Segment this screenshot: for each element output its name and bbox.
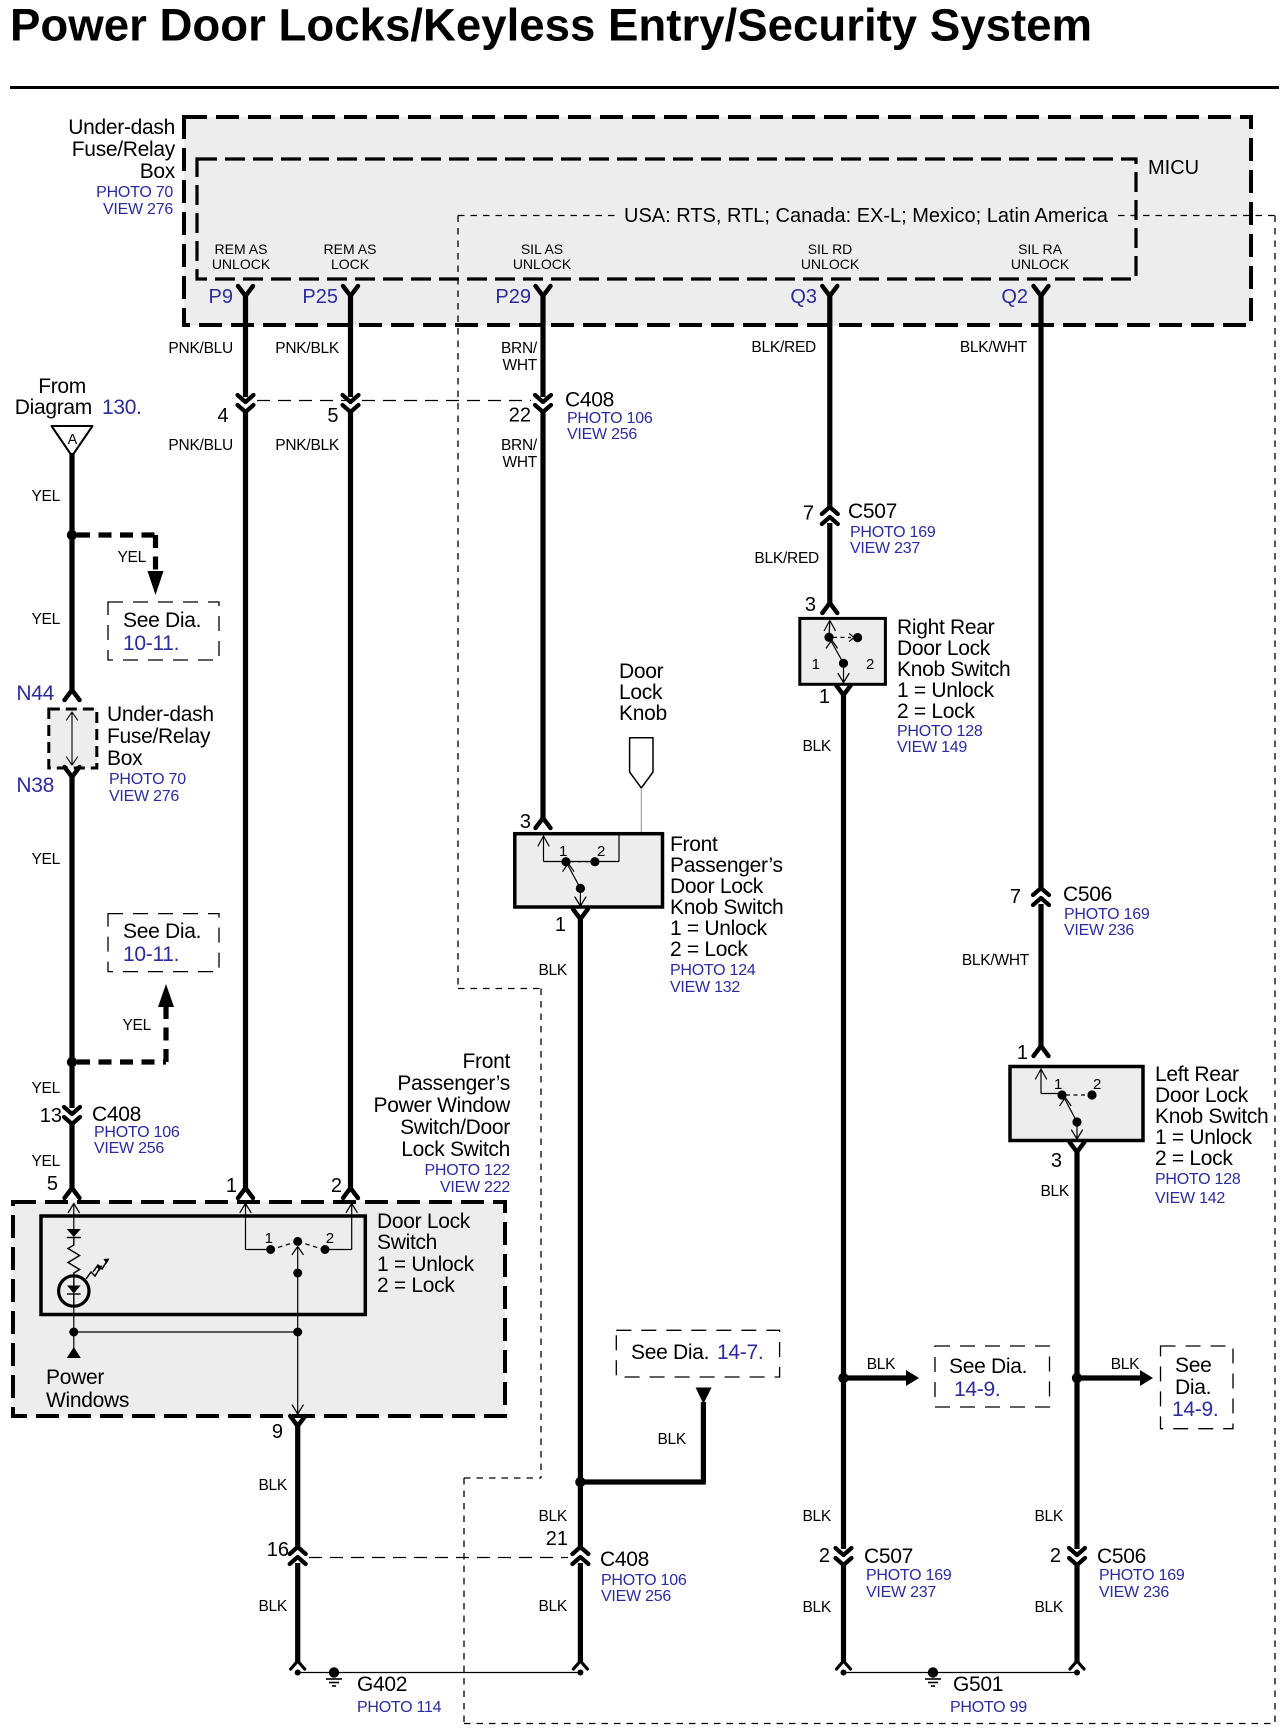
svg-text:2 = Lock: 2 = Lock	[1155, 1147, 1233, 1170]
svg-text:4: 4	[217, 405, 228, 427]
left rear switch rotor dot	[1072, 1117, 1081, 1126]
svg-text:Box: Box	[140, 160, 176, 183]
wire BLK front passenger pin 1	[578, 919, 583, 1482]
svg-text:UNLOCK: UNLOCK	[212, 256, 271, 272]
under-dash fuse/relay box (MICU) outer dashed box	[184, 117, 1251, 325]
wire BLK right rear pin 1	[841, 695, 846, 1549]
svg-text:1: 1	[555, 914, 566, 936]
dashed YEL branch to See Dia 10-11 (lower)	[77, 1059, 166, 1064]
wire YEL to C408 pin 13	[69, 1062, 74, 1108]
svg-text:2: 2	[1093, 1076, 1101, 1093]
wire Q3 BLK/RED upper segment	[827, 296, 832, 509]
pin P29 connector fork	[536, 286, 551, 296]
connector N44 fork	[65, 690, 80, 700]
svg-text:2 = Lock: 2 = Lock	[670, 938, 748, 961]
svg-text:22: 22	[509, 405, 531, 427]
right rear switch contact dot 1	[824, 633, 833, 642]
svg-text:2: 2	[326, 1230, 334, 1247]
ground symbol G402	[329, 1667, 339, 1677]
connector C408 pin 22 (wire-to-wire)	[535, 395, 551, 402]
right rear switch pin 1 fork	[836, 685, 851, 695]
svg-text:5: 5	[47, 1173, 58, 1195]
svg-text:PNK/BLK: PNK/BLK	[275, 340, 340, 357]
svg-text:VIEW 276: VIEW 276	[103, 201, 173, 218]
svg-text:BLK: BLK	[1111, 1356, 1140, 1373]
dashed YEL branch to See Dia 10-11 (upper)	[77, 532, 156, 537]
svg-text:1 = Unlock: 1 = Unlock	[377, 1253, 475, 1276]
svg-text:14-9.: 14-9.	[954, 1378, 1000, 1401]
svg-text:16: 16	[267, 1539, 289, 1561]
ground bus dot right (G501)	[1074, 1670, 1080, 1676]
svg-text:N44: N44	[16, 682, 54, 705]
svg-text:P9: P9	[209, 286, 233, 308]
junction dot right rear BLK	[838, 1373, 848, 1383]
svg-text:YEL: YEL	[31, 488, 60, 505]
svg-text:Knob Switch: Knob Switch	[897, 658, 1010, 681]
arrowhead to See Dia 14-9 (left)	[906, 1370, 919, 1386]
svg-text:P29: P29	[495, 286, 531, 308]
svg-text:BLK: BLK	[802, 1508, 831, 1525]
arrowhead up to See Dia 10-11 (lower)	[158, 984, 174, 1007]
diode symbol	[67, 1229, 81, 1237]
wire YEL to door lock switch pin 5	[69, 1122, 74, 1188]
svg-text:PNK/BLU: PNK/BLU	[168, 437, 233, 454]
svg-text:Q3: Q3	[790, 286, 817, 308]
power window switch pin 9 fork	[290, 1416, 305, 1426]
svg-text:YEL: YEL	[31, 1153, 60, 1170]
svg-text:VIEW 132: VIEW 132	[670, 979, 740, 996]
wire BLK/WHT lower segment	[1038, 904, 1043, 1046]
wire BLK from See Dia 14-7	[701, 1402, 706, 1482]
resistor zigzag	[68, 1238, 80, 1277]
ground bus chevron right (G501)	[1070, 1661, 1084, 1669]
svg-text:VIEW 222: VIEW 222	[440, 1179, 510, 1196]
right rear switch exit line	[843, 663, 845, 682]
ground bus dot right (G402)	[577, 1670, 583, 1676]
svg-text:PHOTO 128: PHOTO 128	[1155, 1171, 1241, 1188]
svg-text:Door Lock: Door Lock	[1155, 1084, 1249, 1107]
ground bus G402	[298, 1672, 581, 1674]
front passenger switch contact bracket	[544, 861, 620, 863]
svg-text:Under-dash: Under-dash	[107, 703, 214, 726]
variant boundary dashed line (left vertical x=458)	[457, 216, 459, 989]
svg-text:BLK: BLK	[1034, 1508, 1063, 1525]
svg-text:PHOTO 106: PHOTO 106	[94, 1124, 180, 1141]
junction dot left rear BLK	[1072, 1373, 1082, 1383]
svg-text:BLK: BLK	[1040, 1183, 1069, 1200]
connector C408 pin 5 (wire-to-wire)	[343, 395, 359, 402]
svg-text:130.: 130.	[102, 396, 142, 419]
wire BRN/WHT lower segment	[540, 410, 545, 818]
svg-text:1: 1	[819, 686, 830, 708]
switch contact dot 1	[266, 1245, 275, 1254]
variant boundary dashed line (vertical x=464)	[463, 1478, 465, 1724]
svg-text:2: 2	[1050, 1545, 1061, 1567]
svg-text:VIEW 256: VIEW 256	[601, 1588, 671, 1605]
svg-text:BRN/: BRN/	[501, 340, 538, 357]
svg-text:PNK/BLK: PNK/BLK	[275, 437, 340, 454]
connector C408 pin 13 (wire-to-wire)	[64, 1107, 80, 1114]
ground bus chevron left (G402)	[291, 1661, 305, 1669]
svg-text:BLK: BLK	[538, 1598, 567, 1615]
connector C507 pin 2 (wire-to-wire)	[836, 1548, 852, 1555]
svg-text:USA: RTS, RTL; Canada: EX-L; M: USA: RTS, RTL; Canada: EX-L; Mexico; Lat…	[624, 205, 1109, 227]
svg-text:10-11.: 10-11.	[123, 943, 179, 966]
wire BLK pin9 lower	[295, 1563, 300, 1662]
svg-text:Front: Front	[462, 1050, 510, 1073]
connector C408 tie line (pins 16-21)	[309, 1557, 568, 1559]
wire BLK/RED lower segment	[827, 523, 832, 603]
svg-text:Front: Front	[670, 833, 718, 856]
svg-text:N38: N38	[16, 774, 54, 797]
variant boundary dashed line (vertical x=541)	[540, 989, 542, 1479]
ground symbol G501	[928, 1667, 938, 1677]
svg-text:BLK: BLK	[258, 1477, 287, 1494]
svg-text:Fuse/Relay: Fuse/Relay	[72, 138, 176, 161]
svg-text:VIEW 142: VIEW 142	[1155, 1190, 1225, 1207]
wire BLK to C408 pin 21	[578, 1482, 583, 1549]
variant boundary dashed line (top left segment)	[458, 215, 616, 217]
svg-text:Passenger’s: Passenger’s	[670, 854, 783, 877]
front passenger switch rotor arm	[568, 865, 581, 889]
svg-text:1 = Unlock: 1 = Unlock	[670, 917, 768, 940]
svg-text:Switch: Switch	[377, 1231, 437, 1254]
svg-text:Lock: Lock	[619, 681, 663, 704]
pin Q2 connector fork	[1034, 286, 1049, 296]
svg-text:REM AS: REM AS	[324, 241, 377, 257]
wire BLK below C507 pin 2	[841, 1563, 846, 1662]
svg-text:P25: P25	[302, 286, 338, 308]
svg-text:BLK/RED: BLK/RED	[751, 339, 816, 356]
right rear switch rotor arm	[831, 641, 844, 663]
svg-text:5: 5	[327, 405, 338, 427]
switch common exit arrow	[292, 1405, 303, 1414]
svg-text:Diagram: Diagram	[15, 396, 92, 419]
variant boundary dashed jog (y=1478)	[464, 1477, 541, 1479]
svg-text:WHT: WHT	[502, 357, 537, 374]
svg-text:Door Lock: Door Lock	[897, 637, 991, 660]
MICU inner dashed box	[197, 159, 1136, 279]
svg-text:From: From	[38, 375, 86, 398]
ground bus chevron left (G501)	[837, 1661, 851, 1669]
switch pivot dashed arm to contact 1	[273, 1241, 298, 1249]
svg-text:VIEW 237: VIEW 237	[850, 540, 920, 557]
svg-text:VIEW 236: VIEW 236	[1099, 1584, 1169, 1601]
svg-text:UNLOCK: UNLOCK	[513, 256, 572, 272]
front passenger switch pin 1 fork	[573, 909, 588, 919]
svg-text:PHOTO 128: PHOTO 128	[897, 723, 983, 740]
svg-text:PHOTO 124: PHOTO 124	[670, 962, 756, 979]
svg-text:Fuse/Relay: Fuse/Relay	[107, 725, 211, 748]
svg-text:BLK/RED: BLK/RED	[754, 550, 819, 567]
svg-text:UNLOCK: UNLOCK	[1011, 256, 1070, 272]
connector C408 pin 21 (wire-to-wire)	[572, 1547, 588, 1554]
svg-text:PHOTO 169: PHOTO 169	[1064, 906, 1150, 923]
under-dash fuse/relay box connector (N44-N38) dashed box	[49, 709, 97, 768]
svg-text:3: 3	[520, 811, 531, 833]
svg-text:BLK: BLK	[867, 1356, 896, 1373]
door lock switch pin 5 fork	[65, 1188, 80, 1198]
wire PNK/BLK lower segment to door lock switch	[348, 410, 353, 1188]
wire Q2 BLK/WHT upper segment	[1038, 296, 1043, 890]
junction dot YEL branch 1	[67, 530, 77, 540]
See Dia. 10-11. box (upper)	[108, 602, 219, 660]
left rear knob switch pin 1 fork	[1034, 1046, 1049, 1056]
See Dia. 10-11. box (lower)	[108, 914, 219, 972]
svg-text:SIL RA: SIL RA	[1018, 241, 1062, 257]
svg-text:Lock Switch: Lock Switch	[401, 1138, 510, 1161]
svg-text:VIEW 256: VIEW 256	[567, 426, 637, 443]
left rear switch pin 3 fork	[1070, 1142, 1085, 1152]
svg-text:1: 1	[559, 843, 567, 860]
svg-text:Right Rear: Right Rear	[897, 616, 995, 639]
ground bus dot left (G402)	[295, 1670, 301, 1676]
svg-text:BLK: BLK	[538, 1508, 567, 1525]
illumination lamp entry arrow	[68, 1204, 79, 1213]
ground bus chevron right (G402)	[573, 1661, 587, 1669]
svg-text:BRN/: BRN/	[501, 437, 538, 454]
svg-text:VIEW 276: VIEW 276	[109, 788, 179, 805]
svg-text:Passenger’s: Passenger’s	[397, 1072, 510, 1095]
pin Q3 connector fork	[822, 286, 837, 296]
svg-text:21: 21	[546, 1528, 568, 1550]
svg-text:3: 3	[805, 594, 816, 616]
front passenger switch contact dot 2	[590, 857, 599, 866]
svg-text:See Dia.: See Dia.	[123, 609, 201, 632]
arrowhead down to See Dia 10-11	[148, 571, 164, 595]
svg-text:SIL AS: SIL AS	[521, 241, 563, 257]
wire YEL from triangle	[69, 453, 74, 535]
arrowhead to See Dia 14-9 (right)	[1140, 1370, 1153, 1386]
connector C408 tie line (pins 4-5-22)	[257, 400, 531, 402]
svg-text:VIEW 237: VIEW 237	[866, 1584, 936, 1601]
variant boundary dashed jog (y=988)	[458, 988, 541, 990]
svg-text:Under-dash: Under-dash	[68, 116, 175, 139]
connector C408 pin 4 (wire-to-wire)	[238, 395, 254, 402]
svg-text:14-9.: 14-9.	[1172, 1398, 1218, 1421]
svg-text:Knob Switch: Knob Switch	[670, 896, 783, 919]
svg-text:2 = Lock: 2 = Lock	[377, 1274, 455, 1297]
right rear switch internal arrow to pin 3	[824, 621, 835, 631]
front passenger switch rotor dot	[576, 884, 585, 893]
svg-text:VIEW 149: VIEW 149	[897, 739, 967, 756]
svg-text:PHOTO 169: PHOTO 169	[850, 524, 936, 541]
LED symbol inside lamp	[67, 1286, 81, 1294]
front passenger switch internal arrow to pin 3	[538, 836, 549, 846]
wire BLK below pin 21	[578, 1563, 583, 1662]
svg-text:C408: C408	[92, 1103, 141, 1126]
svg-text:7: 7	[1010, 886, 1021, 908]
variant boundary dashed line (bottom y=1723)	[464, 1723, 1275, 1725]
title underline rule	[10, 86, 1279, 89]
door lock switch solid box	[41, 1216, 365, 1315]
svg-text:VIEW 236: VIEW 236	[1064, 922, 1134, 939]
left rear switch contact dot 2	[1087, 1090, 1096, 1099]
svg-text:VIEW 256: VIEW 256	[94, 1140, 164, 1157]
wire BLK left rear pin 3	[1074, 1152, 1079, 1549]
svg-text:YEL: YEL	[117, 549, 146, 566]
svg-text:1: 1	[812, 656, 820, 673]
left rear switch exit line	[1076, 1122, 1078, 1139]
front passenger switch exit line	[579, 888, 581, 906]
switch common mid dot	[293, 1269, 302, 1278]
right rear switch contact dot 2	[853, 633, 862, 642]
front passenger knob switch pin 3 fork	[536, 818, 551, 828]
variant boundary dashed line (top right segment)	[1118, 215, 1275, 217]
svg-text:BLK: BLK	[802, 1599, 831, 1616]
variant boundary dashed line (right vertical x=1275)	[1274, 216, 1276, 1724]
svg-text:SIL RD: SIL RD	[808, 241, 853, 257]
power window switch module dashed box	[13, 1202, 505, 1416]
svg-text:Knob Switch: Knob Switch	[1155, 1105, 1268, 1128]
svg-text:Door Lock: Door Lock	[670, 875, 764, 898]
front passenger switch dashed link	[570, 861, 591, 863]
svg-text:BLK: BLK	[802, 738, 831, 755]
svg-text:Power: Power	[46, 1366, 104, 1389]
svg-text:Switch/Door: Switch/Door	[400, 1116, 510, 1139]
switch common junction dot	[293, 1328, 302, 1337]
switch common arrow	[292, 1247, 303, 1255]
svg-text:1: 1	[265, 1230, 273, 1247]
right rear knob switch pin 3 fork	[822, 603, 837, 613]
svg-text:BLK: BLK	[657, 1431, 686, 1448]
door lock switch pin 1 fork	[238, 1188, 253, 1198]
svg-text:WHT: WHT	[502, 454, 537, 471]
svg-text:Door: Door	[619, 660, 664, 683]
svg-text:PHOTO 169: PHOTO 169	[866, 1567, 952, 1584]
svg-text:See: See	[1175, 1354, 1211, 1377]
illumination arrows	[86, 1268, 100, 1279]
svg-text:1: 1	[1017, 1042, 1028, 1064]
right rear door lock knob switch box	[800, 618, 886, 684]
svg-text:Door Lock: Door Lock	[377, 1210, 471, 1233]
lamp wire to box bottom	[73, 1306, 75, 1332]
svg-text:A: A	[68, 432, 78, 448]
svg-text:LOCK: LOCK	[331, 256, 370, 272]
svg-text:1 = Unlock: 1 = Unlock	[897, 679, 995, 702]
switch pin 1 internal line	[240, 1204, 251, 1213]
illumination lamp circle	[59, 1276, 89, 1306]
junction dot front passenger/14-7	[575, 1477, 585, 1487]
svg-text:7: 7	[803, 503, 814, 525]
left rear door lock knob switch box	[1010, 1067, 1143, 1141]
power windows arrow	[73, 1332, 75, 1349]
svg-text:1 = Unlock: 1 = Unlock	[1155, 1126, 1253, 1149]
svg-text:Windows: Windows	[46, 1389, 129, 1412]
connector N38 fork	[65, 767, 80, 777]
right rear switch dashed link	[833, 636, 851, 638]
svg-text:PHOTO 70: PHOTO 70	[96, 184, 173, 201]
wire P9 PNK/BLU upper segment	[243, 296, 248, 397]
connector C506 pin 2 (wire-to-wire)	[1069, 1548, 1085, 1555]
svg-text:2: 2	[819, 1545, 830, 1567]
switch contact dot 2	[321, 1245, 330, 1254]
svg-text:MICU: MICU	[1148, 157, 1199, 179]
svg-text:G501: G501	[953, 1673, 1003, 1696]
wire P25 PNK/BLK upper segment	[348, 296, 353, 397]
svg-text:See Dia.: See Dia.	[949, 1355, 1027, 1378]
arrowhead from See Dia 14-7	[696, 1388, 712, 1405]
wire BLK pin9 upper	[295, 1426, 300, 1549]
switch pin 2 internal line	[346, 1204, 357, 1213]
svg-text:BLK/WHT: BLK/WHT	[962, 952, 1030, 969]
left rear switch contact dot 1	[1057, 1090, 1066, 1099]
See Dia. 14-9. box (left)	[935, 1346, 1050, 1407]
ground bus dot left (G501)	[841, 1670, 847, 1676]
switch pivot dot	[293, 1237, 302, 1246]
connector C506 pin 7 (wire-to-wire)	[1033, 888, 1049, 895]
svg-text:C408: C408	[600, 1548, 649, 1571]
svg-text:BLK: BLK	[258, 1598, 287, 1615]
svg-text:C507: C507	[848, 500, 897, 523]
wire stub to See Dia 14-9 (left)	[844, 1375, 907, 1380]
svg-text:PHOTO 106: PHOTO 106	[601, 1572, 687, 1589]
svg-text:Power Door Locks/Keyless Entry: Power Door Locks/Keyless Entry/Security …	[10, 0, 1092, 51]
svg-text:1: 1	[226, 1175, 237, 1197]
wire P29 BRN/WHT upper segment	[540, 296, 545, 397]
svg-text:PHOTO 114: PHOTO 114	[357, 1699, 442, 1716]
connector C408 pin 16 (wire-to-wire)	[290, 1547, 306, 1554]
svg-text:10-11.: 10-11.	[123, 632, 179, 655]
svg-text:1: 1	[1054, 1076, 1062, 1093]
junction dot lamp/switch common	[69, 1328, 78, 1337]
svg-text:C506: C506	[1063, 883, 1112, 906]
svg-text:13: 13	[40, 1105, 62, 1127]
svg-text:G402: G402	[357, 1673, 407, 1696]
svg-text:PHOTO 106: PHOTO 106	[567, 410, 653, 427]
off-page triangle A	[52, 426, 93, 456]
left rear switch internal arrow to pin 1	[1036, 1069, 1047, 1079]
svg-text:Knob: Knob	[619, 702, 667, 725]
svg-text:UNLOCK: UNLOCK	[801, 256, 860, 272]
svg-text:BLK: BLK	[1034, 1599, 1063, 1616]
svg-text:2: 2	[331, 1175, 342, 1197]
svg-text:C506: C506	[1097, 1545, 1146, 1568]
svg-text:YEL: YEL	[122, 1017, 151, 1034]
pin P9 connector fork	[238, 286, 253, 296]
wire stub to See Dia 14-9 (right)	[1077, 1375, 1140, 1380]
svg-text:Box: Box	[107, 747, 143, 770]
connector C507 pin 7 (wire-to-wire)	[822, 507, 838, 514]
junction dot YEL branch 2	[67, 1057, 77, 1067]
svg-text:REM AS: REM AS	[215, 241, 268, 257]
wire YEL to N44	[69, 535, 74, 690]
svg-text:Dia.: Dia.	[1175, 1376, 1211, 1399]
switch pivot dashed arm to contact 2	[298, 1241, 322, 1249]
door lock switch pin 2 fork	[343, 1188, 358, 1198]
svg-text:PHOTO 70: PHOTO 70	[109, 771, 186, 788]
fuse box internal arrow line	[71, 712, 73, 765]
wire PNK/BLU lower segment to door lock switch	[243, 410, 248, 1188]
svg-text:2: 2	[597, 843, 605, 860]
svg-text:YEL: YEL	[31, 611, 60, 628]
ground bus G501	[844, 1672, 1078, 1674]
front passenger switch contact dot 1	[561, 857, 570, 866]
svg-text:Power Window: Power Window	[374, 1094, 512, 1117]
svg-text:PNK/BLU: PNK/BLU	[168, 340, 233, 357]
left rear switch dashed link	[1066, 1094, 1088, 1096]
left rear switch rotor arm	[1065, 1099, 1078, 1123]
svg-text:YEL: YEL	[31, 851, 60, 868]
svg-text:C408: C408	[565, 389, 614, 412]
right rear switch rotor dot	[839, 659, 848, 668]
svg-text:YEL: YEL	[31, 1080, 60, 1097]
wire BLK below C506 pin 2	[1074, 1563, 1079, 1662]
svg-text:Left Rear: Left Rear	[1155, 1063, 1239, 1086]
wire YEL from N38	[69, 777, 74, 1062]
door lock knob mechanical link	[640, 788, 642, 879]
See Dia. 14-7. box	[616, 1330, 779, 1377]
